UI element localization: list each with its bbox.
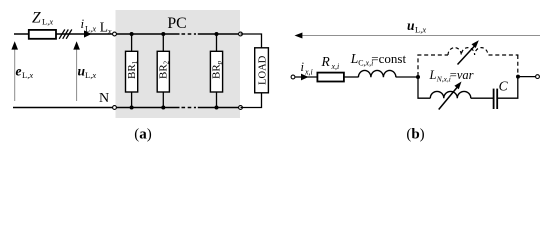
svg-text:=var: =var — [450, 68, 474, 82]
terminal node bottom-right circle — [239, 106, 243, 110]
svg-text:(b): (b) — [406, 127, 424, 143]
voltage arrow u_Lx long annotation — [300, 35, 540, 37]
wire BR1 bottom stub — [131, 92, 133, 108]
resistor R_xi box — [317, 73, 344, 82]
svg-text:i: i — [301, 60, 305, 74]
svg-text:N,x,i: N,x,i — [436, 74, 451, 83]
svg-text:u: u — [407, 18, 415, 33]
svg-text:Z: Z — [32, 10, 41, 27]
dashed coil — [448, 48, 488, 55]
svg-text:PC: PC — [167, 15, 186, 32]
current arrow i_Lx — [84, 30, 92, 37]
svg-text:L: L — [350, 51, 359, 66]
branch rectifier BR2 — [157, 51, 169, 92]
wire node A down — [418, 77, 430, 98]
line-break slashes on wire — [59, 29, 72, 38]
wire bottom bus right part — [198, 107, 241, 109]
wire capacitor to node B — [498, 77, 518, 99]
voltage arrow u_Lx (annotation) — [76, 48, 78, 101]
svg-text:L,x: L,x — [42, 17, 53, 27]
inductor L_N,x,i coil — [430, 91, 471, 98]
branch rectifier BRp — [210, 51, 222, 92]
svg-text:L: L — [429, 68, 437, 82]
svg-text:LOAD: LOAD — [257, 55, 268, 85]
junction dot BR2 bottom — [161, 106, 165, 110]
junction node B — [516, 75, 520, 79]
junction node A — [416, 75, 420, 79]
variable arrow through L_N coil — [439, 87, 458, 110]
wire R to coil — [344, 76, 359, 78]
wire input (b) — [295, 76, 317, 78]
current arrow i_xi — [301, 74, 309, 81]
capacitor C — [493, 89, 495, 109]
svg-text:(a): (a) — [134, 127, 152, 143]
source arrow e_Lx (annotation) — [14, 48, 16, 101]
load box — [255, 48, 269, 93]
svg-text:x,i: x,i — [331, 62, 340, 71]
svg-text:R: R — [321, 54, 331, 69]
PC converter shaded block — [116, 10, 241, 118]
svg-text:x: x — [107, 26, 112, 36]
terminal circle right (b) — [536, 75, 540, 79]
wire to LOAD bottom — [241, 93, 262, 108]
junction dot BR2 top — [161, 32, 165, 36]
svg-text:x,i: x,i — [304, 67, 313, 76]
terminal node N circle — [113, 106, 117, 110]
terminal node Lx circle — [113, 32, 117, 36]
branch rectifier BR1 — [126, 51, 138, 92]
dashed branch right side — [489, 54, 519, 56]
wire bottom dashed continuation — [182, 107, 197, 109]
svg-text:i: i — [81, 16, 85, 31]
svg-text:L,x: L,x — [85, 70, 96, 80]
variable arrow through dashed coil — [458, 46, 475, 64]
wire BR2 bottom stub — [162, 92, 164, 108]
junction dot BR1 top — [130, 32, 134, 36]
wire BR2 top stub — [162, 34, 164, 51]
dashed variable inductor branch (top) — [417, 55, 419, 76]
wire BRp bottom stub — [216, 92, 218, 108]
wire top dashed continuation — [182, 33, 197, 35]
wire node B to output terminal — [518, 76, 535, 78]
wire BR1 top stub — [131, 34, 133, 51]
terminal circle left (b) — [291, 75, 295, 79]
wire to LOAD top — [241, 34, 262, 48]
inductor L_C,x,i coil — [358, 70, 396, 77]
svg-text:L,x: L,x — [415, 25, 426, 35]
svg-text:N: N — [99, 91, 109, 106]
junction dot BRp bottom — [215, 106, 219, 110]
svg-text:=const: =const — [371, 51, 406, 66]
svg-text:L,x: L,x — [85, 23, 96, 33]
terminal node top-right circle — [239, 32, 243, 36]
svg-text:e: e — [16, 64, 22, 79]
junction dot BRp top — [215, 32, 219, 36]
wire coil to capacitor — [471, 97, 493, 99]
wire bottom bus N (a) — [13, 107, 180, 109]
wire top bus (a) — [14, 33, 180, 35]
wire top bus right part — [198, 33, 241, 35]
wire coil to node A — [396, 76, 418, 78]
junction dot BR1 bottom — [130, 106, 134, 110]
svg-text:L,x: L,x — [22, 70, 33, 80]
impedance Z_Lx box — [29, 30, 56, 39]
wire BRp top stub — [216, 34, 218, 51]
svg-text:C: C — [499, 79, 509, 94]
